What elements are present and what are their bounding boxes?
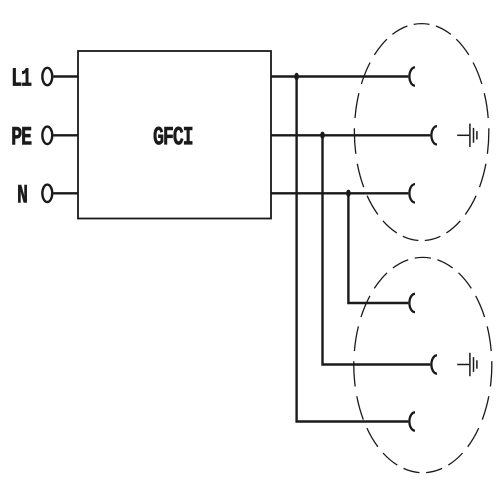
earth symbol outlet2 [457, 353, 477, 376]
socket contact outlet1 L [409, 67, 415, 85]
wire N to GFCI [53, 192, 78, 194]
junction dot row1 [294, 73, 299, 80]
label L1 [13, 68, 31, 85]
terminal N [42, 185, 52, 202]
wire row2 GFCI to outlet1 PE contact [271, 134, 430, 136]
socket contact outlet1 N [409, 184, 415, 202]
wire branch row3 to outlet2 top contact [348, 193, 408, 303]
wire PE to GFCI [53, 134, 78, 136]
socket contact outlet1 PE [431, 126, 437, 144]
GFCI label [154, 127, 193, 145]
wire L1 to GFCI [53, 75, 78, 77]
wire branch row1 to outlet2 bottom contact [297, 77, 409, 422]
label N [18, 185, 27, 202]
GFCI box [78, 51, 271, 219]
junction dot row3 [346, 190, 351, 197]
outlet1 dashed ellipse [354, 24, 488, 241]
socket contact outlet2 L [409, 294, 415, 312]
wire row1 GFCI to outlet1 L contact [271, 75, 408, 77]
socket contact outlet2 PE [431, 355, 437, 373]
terminal L1 [42, 68, 52, 85]
terminal PE [42, 127, 52, 144]
wire row3 GFCI to outlet1 N contact [271, 192, 408, 194]
wire branch row2 to outlet2 middle contact [323, 135, 431, 364]
outlet2 dashed ellipse [354, 257, 492, 472]
socket contact outlet2 N [409, 412, 415, 430]
earth symbol outlet1 [457, 124, 477, 147]
junction dot row2 [320, 132, 325, 139]
label PE [12, 127, 31, 144]
